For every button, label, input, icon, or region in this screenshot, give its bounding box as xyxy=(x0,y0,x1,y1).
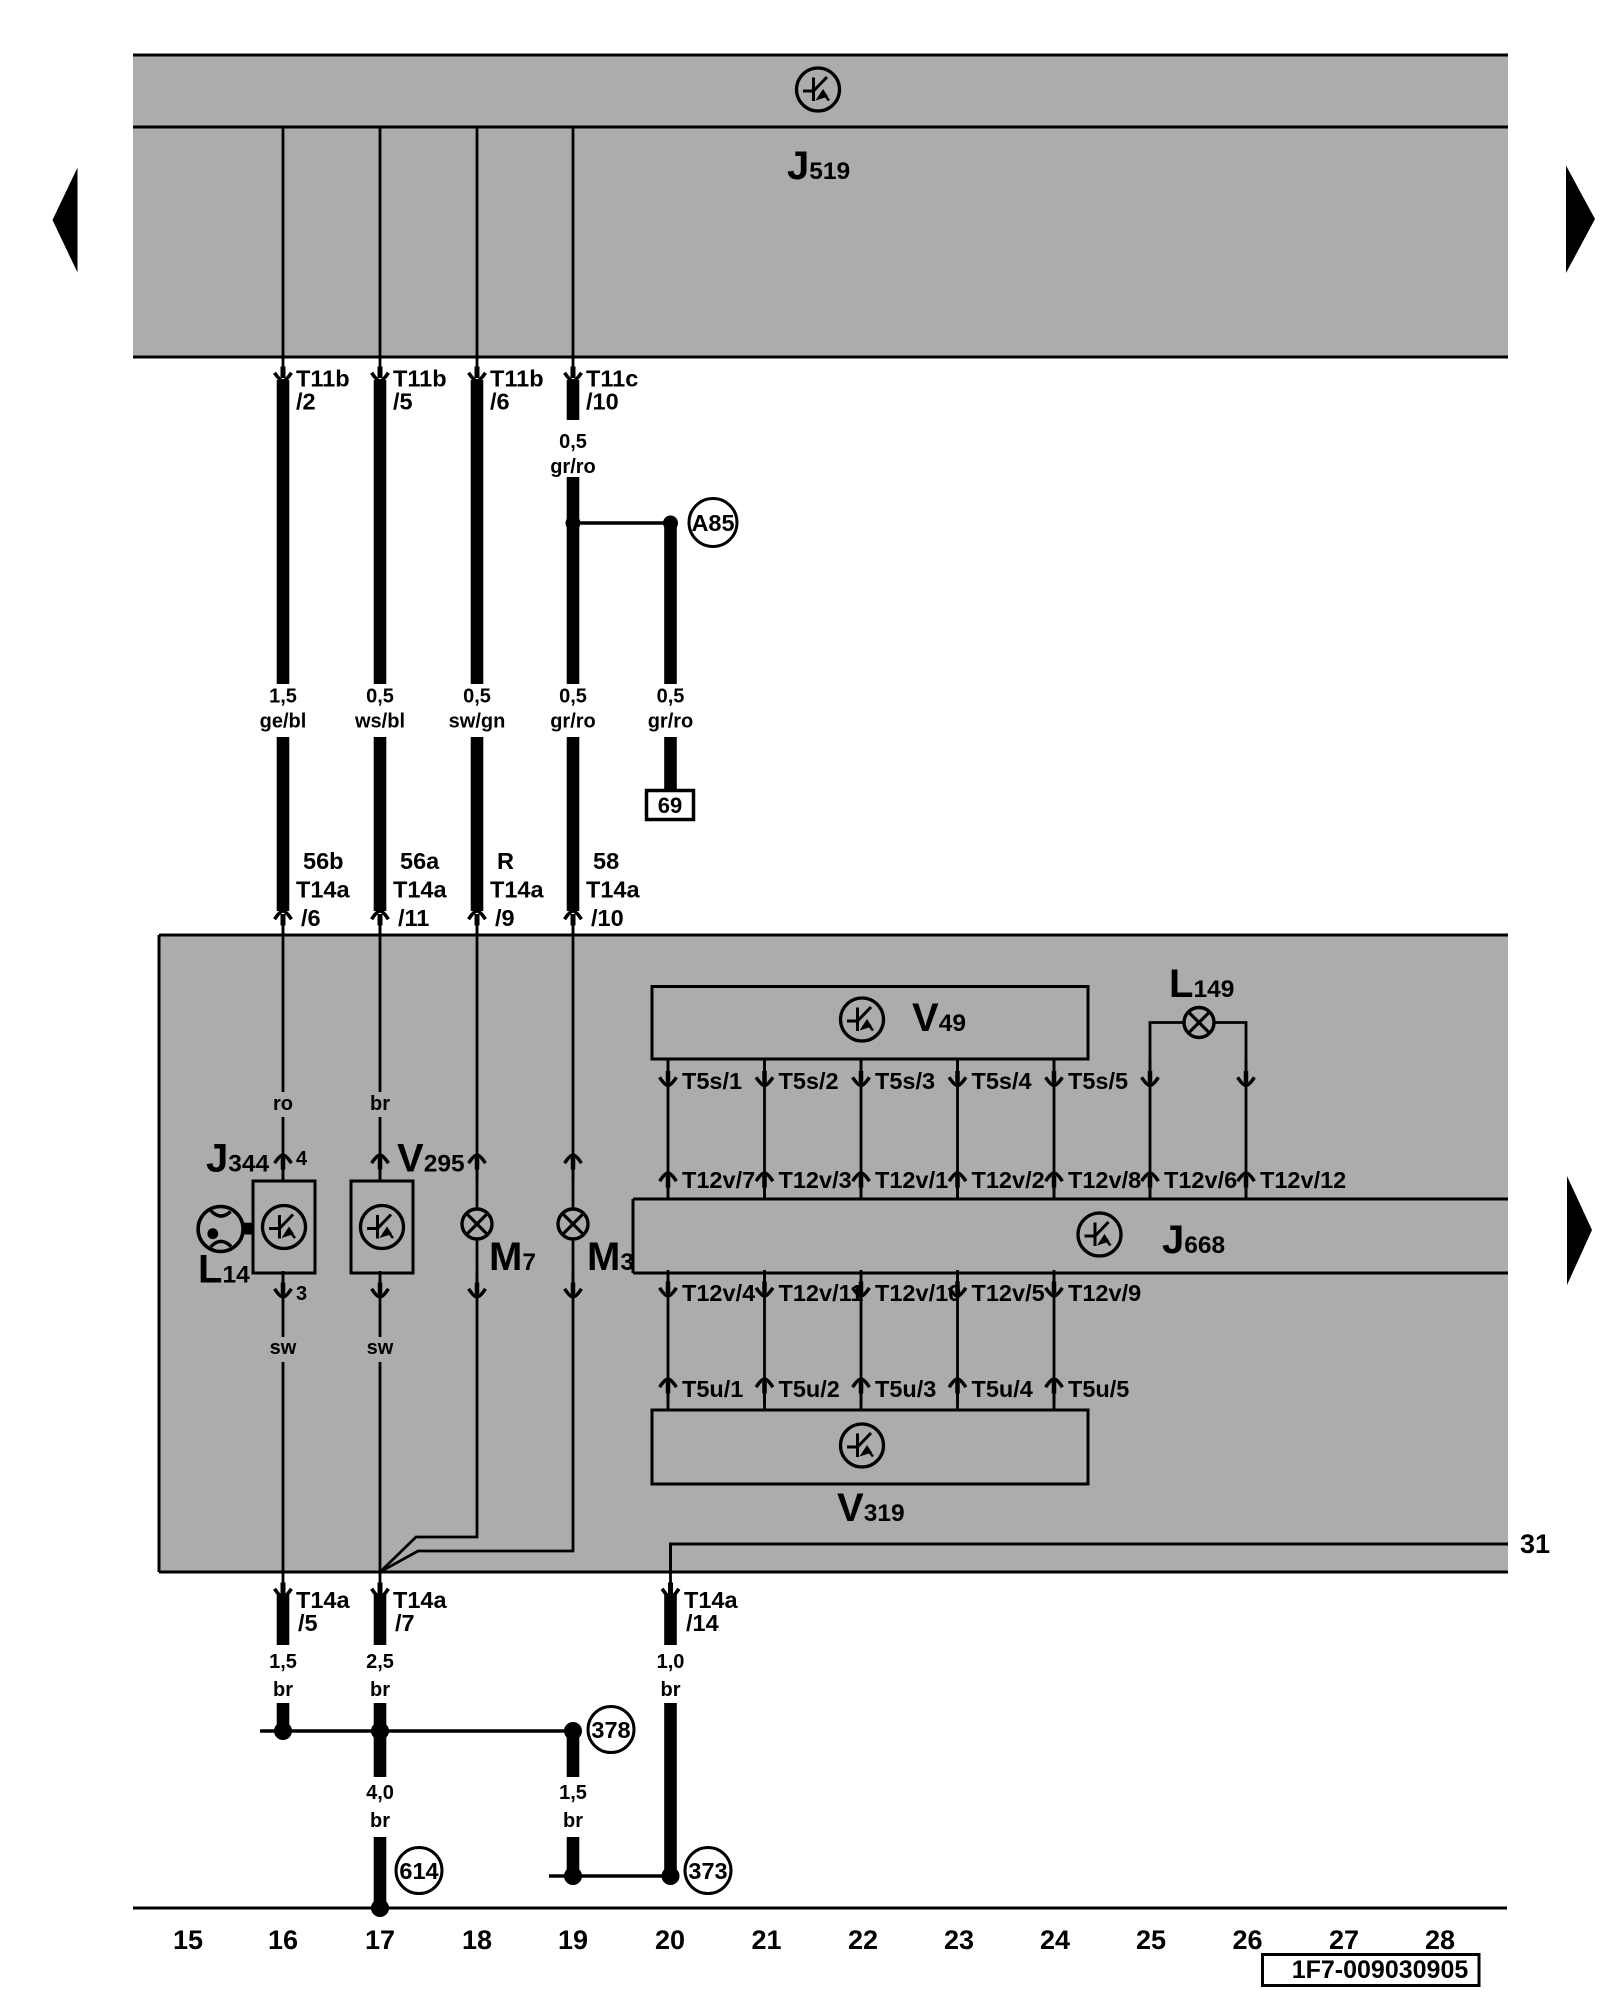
svg-text:T12v/12: T12v/12 xyxy=(1260,1167,1346,1193)
svg-text:4,0: 4,0 xyxy=(366,1782,394,1804)
svg-text:T12v/1: T12v/1 xyxy=(875,1167,948,1193)
pin top of M7 xyxy=(469,1155,486,1181)
pin T12v/2 xyxy=(949,1167,1045,1199)
svg-text:24: 24 xyxy=(1040,1925,1070,1955)
svg-text:15: 15 xyxy=(173,1925,203,1955)
svg-text:1,5: 1,5 xyxy=(269,1651,297,1673)
svg-text:T12v/7: T12v/7 xyxy=(682,1167,755,1193)
wire 1,5 ge/bl xyxy=(260,380,307,911)
ground junction dot col17 xyxy=(371,1899,389,1917)
pin T12v/10 xyxy=(853,1270,962,1306)
svg-text:sw: sw xyxy=(270,1337,297,1359)
svg-text:/11: /11 xyxy=(398,905,429,931)
svg-text:614: 614 xyxy=(399,1858,438,1884)
svg-text:T5s/3: T5s/3 xyxy=(875,1068,935,1094)
svg-text:T14a: T14a xyxy=(296,877,350,903)
node 614 xyxy=(396,1848,442,1894)
wire 2,5 br / 4,0 br xyxy=(366,1594,394,1908)
wire 0,5 gr/ro to terminal 69 xyxy=(648,523,694,790)
svg-text:1F7-009030905: 1F7-009030905 xyxy=(1292,1956,1469,1984)
pin T5s/5 xyxy=(1046,1060,1128,1095)
svg-text:0,5: 0,5 xyxy=(559,686,587,708)
lamp M3 xyxy=(558,1209,588,1239)
svg-text:T5u/2: T5u/2 xyxy=(779,1376,840,1402)
svg-text:T12v/4: T12v/4 xyxy=(682,1280,755,1306)
svg-text:R: R xyxy=(497,848,514,874)
pin T12v/8 xyxy=(1046,1167,1142,1199)
svg-text:T5s/1: T5s/1 xyxy=(682,1068,742,1094)
svg-text:1,5: 1,5 xyxy=(559,1782,587,1804)
pin T5s/2 xyxy=(756,1060,838,1095)
svg-text:T5u/4: T5u/4 xyxy=(972,1376,1033,1402)
wire sw from J344 xyxy=(270,1273,297,1572)
svg-text:/10: /10 xyxy=(586,389,619,415)
svg-text:0,5: 0,5 xyxy=(366,686,394,708)
pin T12v/12 xyxy=(1238,1167,1347,1199)
wire 0,5 ws/bl xyxy=(354,380,405,911)
svg-text:22: 22 xyxy=(848,1925,878,1955)
svg-text:gr/ro: gr/ro xyxy=(550,711,596,733)
svg-text:1,0: 1,0 xyxy=(657,1651,685,1673)
continuation arrow left xyxy=(53,168,78,273)
svg-text:/9: /9 xyxy=(495,905,515,931)
pin T12v/7 xyxy=(660,1167,756,1199)
svg-text:23: 23 xyxy=(944,1925,974,1955)
pin T5u/4 xyxy=(949,1376,1033,1405)
svg-text:56b: 56b xyxy=(303,848,344,874)
pin T12v/4 xyxy=(660,1270,756,1306)
svg-text:/14: /14 xyxy=(686,1610,719,1636)
wires J668 to V319 xyxy=(668,1273,1054,1410)
wires V49 to J668 xyxy=(668,1059,1054,1199)
junction wire to A85 xyxy=(566,516,679,531)
pin top of M3 xyxy=(565,1155,582,1181)
svg-text:0,5: 0,5 xyxy=(657,686,685,708)
wire to M7 xyxy=(476,935,479,1209)
pin T12v/9 xyxy=(1046,1270,1142,1306)
wire 1,5 br ground xyxy=(559,1731,587,1876)
wire inside J519 col17 xyxy=(379,128,382,357)
pin 3 of J344 xyxy=(275,1271,308,1305)
pin T12v/6 xyxy=(1142,1167,1238,1199)
wire stubs into main box xyxy=(283,927,573,936)
svg-text:25: 25 xyxy=(1136,1925,1166,1955)
svg-text:0,5: 0,5 xyxy=(559,431,587,453)
pin T11b/2 xyxy=(275,355,350,415)
continuation arrow right middle xyxy=(1567,1176,1592,1285)
svg-text:gr/ro: gr/ro xyxy=(648,711,694,733)
svg-text:0,5: 0,5 xyxy=(463,686,491,708)
svg-text:T14a: T14a xyxy=(490,877,544,903)
wire ro to J344 xyxy=(273,935,293,1181)
svg-text:26: 26 xyxy=(1232,1925,1262,1955)
svg-text:20: 20 xyxy=(655,1925,685,1955)
pin T11b/5 xyxy=(372,355,447,415)
svg-text:sw: sw xyxy=(367,1337,394,1359)
svg-text:T5s/2: T5s/2 xyxy=(779,1068,839,1094)
wire to M3 xyxy=(572,935,575,1209)
svg-text:/5: /5 xyxy=(393,389,413,415)
pin T5u/5 xyxy=(1046,1376,1130,1405)
continuation arrow right top xyxy=(1566,166,1595,274)
pin T14a/14 xyxy=(662,1571,738,1636)
svg-text:T5u/3: T5u/3 xyxy=(875,1376,936,1402)
svg-text:/6: /6 xyxy=(490,389,510,415)
wire br to V295 xyxy=(370,935,390,1181)
control unit J519 box xyxy=(133,55,1508,357)
pin T5s/1 xyxy=(660,1060,742,1095)
node 378 xyxy=(588,1707,634,1753)
svg-text:T14a: T14a xyxy=(393,877,447,903)
svg-text:br: br xyxy=(370,1679,390,1701)
wire from M7 to T14a/7 xyxy=(380,1239,477,1572)
motor V49 box xyxy=(652,987,1088,1060)
bulb L149 xyxy=(1184,1008,1214,1038)
wire sw from V295 xyxy=(367,1273,394,1572)
pin bottom of M3 xyxy=(565,1271,582,1297)
main control unit box xyxy=(159,935,1508,1572)
svg-text:ge/bl: ge/bl xyxy=(260,711,307,733)
ground bus wire upper xyxy=(260,1722,582,1740)
grid numbers xyxy=(173,1925,1455,1955)
svg-text:/6: /6 xyxy=(301,905,321,931)
svg-text:18: 18 xyxy=(462,1925,492,1955)
pin bottom of M7 xyxy=(469,1271,486,1297)
control unit J668 xyxy=(633,1199,1508,1273)
svg-text:378: 378 xyxy=(591,1717,630,1743)
pin T12v/11 xyxy=(756,1270,863,1306)
svg-text:31: 31 xyxy=(1520,1529,1550,1559)
svg-text:28: 28 xyxy=(1425,1925,1455,1955)
pin bottom of V295 xyxy=(372,1271,389,1297)
svg-text:br: br xyxy=(661,1679,681,1701)
ground bus wire lower xyxy=(549,1867,680,1885)
pin T12v/5 xyxy=(949,1270,1045,1306)
pin L149 left xyxy=(1142,1060,1159,1086)
svg-text:br: br xyxy=(273,1679,293,1701)
pin 56b T14a/6 xyxy=(275,848,351,937)
pin T14a/5 xyxy=(275,1571,351,1636)
pin 56a T14a/11 xyxy=(372,848,448,937)
svg-text:2,5: 2,5 xyxy=(366,1651,394,1673)
node A85 xyxy=(689,499,737,547)
svg-text:sw/gn: sw/gn xyxy=(449,711,506,733)
pin T14a/7 xyxy=(372,1571,448,1636)
svg-text:T12v/2: T12v/2 xyxy=(972,1167,1045,1193)
svg-text:/2: /2 xyxy=(296,389,316,415)
wire terminal 31 xyxy=(671,1529,1551,1572)
svg-text:T12v/6: T12v/6 xyxy=(1164,1167,1237,1193)
svg-text:br: br xyxy=(563,1810,583,1832)
pin T5u/2 xyxy=(756,1376,840,1405)
svg-text:58: 58 xyxy=(593,848,619,874)
svg-text:/5: /5 xyxy=(298,1610,318,1636)
svg-text:ws/bl: ws/bl xyxy=(354,711,405,733)
pin 4 of J344 xyxy=(275,1148,308,1181)
bulb L14 xyxy=(198,1207,253,1252)
svg-text:T12v/9: T12v/9 xyxy=(1068,1280,1141,1306)
pin T5s/4 xyxy=(949,1060,1031,1095)
svg-text:T5s/4: T5s/4 xyxy=(972,1068,1032,1094)
wire 0,5 sw/gn xyxy=(449,380,506,911)
svg-text:21: 21 xyxy=(751,1925,781,1955)
svg-text:T5u/1: T5u/1 xyxy=(682,1376,743,1402)
motor V319 box xyxy=(652,1410,1088,1484)
svg-text:56a: 56a xyxy=(400,848,440,874)
wire inside J519 col18 xyxy=(476,128,479,357)
pin T5u/1 xyxy=(660,1376,744,1405)
svg-text:16: 16 xyxy=(268,1925,298,1955)
wire 1,5 br xyxy=(269,1594,297,1731)
pin T11c/10 xyxy=(565,355,639,415)
svg-text:T5s/5: T5s/5 xyxy=(1068,1068,1128,1094)
wires L149 to J668 xyxy=(1150,1023,1246,1200)
J519 electronics symbol xyxy=(797,68,840,111)
pin T11b/6 xyxy=(469,355,544,415)
wire 0,5 gr/ro col19 xyxy=(550,380,596,911)
terminal box 69 xyxy=(647,791,694,820)
diagram number box xyxy=(1263,1955,1480,1986)
svg-text:T12v/3: T12v/3 xyxy=(779,1167,852,1193)
pin R T14a/9 xyxy=(469,848,545,937)
pin T12v/3 xyxy=(756,1167,852,1199)
svg-text:/10: /10 xyxy=(591,905,624,931)
svg-text:27: 27 xyxy=(1329,1925,1359,1955)
svg-text:4: 4 xyxy=(296,1148,308,1170)
svg-text:ro: ro xyxy=(273,1093,293,1115)
svg-text:3: 3 xyxy=(296,1283,307,1305)
svg-text:br: br xyxy=(370,1810,390,1832)
bottom rail xyxy=(133,1907,1507,1910)
svg-text:17: 17 xyxy=(365,1925,395,1955)
svg-text:br: br xyxy=(370,1093,390,1115)
svg-text:T12v/10: T12v/10 xyxy=(875,1280,961,1306)
lamp M7 xyxy=(462,1209,492,1239)
wire from M3 to T14a/7 xyxy=(380,1239,573,1572)
svg-text:1,5: 1,5 xyxy=(269,686,297,708)
wire inside J519 col19 xyxy=(572,128,575,357)
svg-text:T5u/5: T5u/5 xyxy=(1068,1376,1129,1402)
svg-text:T12v/8: T12v/8 xyxy=(1068,1167,1141,1193)
svg-text:T12v/11: T12v/11 xyxy=(779,1280,864,1306)
pin T5u/3 xyxy=(853,1376,937,1405)
svg-text:A85: A85 xyxy=(691,510,734,536)
motor V295 box xyxy=(351,1181,413,1273)
switch J344 box xyxy=(253,1181,315,1273)
pin T5s/3 xyxy=(853,1060,935,1095)
pin T12v/1 xyxy=(853,1167,949,1199)
pin L149 right xyxy=(1238,1060,1255,1086)
svg-text:373: 373 xyxy=(688,1858,727,1884)
svg-text:gr/ro: gr/ro xyxy=(550,456,596,478)
pin top of V295 xyxy=(372,1155,389,1181)
pin 58 T14a/10 xyxy=(565,848,641,937)
svg-text:19: 19 xyxy=(558,1925,588,1955)
svg-text:T14a: T14a xyxy=(586,877,640,903)
wire 1,0 br xyxy=(657,1594,685,1876)
svg-text:T12v/5: T12v/5 xyxy=(972,1280,1045,1306)
wire inside J519 col16 xyxy=(282,128,285,357)
node 373 xyxy=(685,1848,731,1894)
svg-text:69: 69 xyxy=(658,793,682,818)
svg-text:/7: /7 xyxy=(395,1610,415,1636)
